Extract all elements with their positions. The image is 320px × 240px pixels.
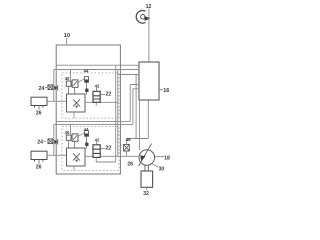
reservoir stem (bottom): [38, 160, 40, 164]
svg-text:22: 22: [106, 91, 112, 97]
element square 40 (bottom): [66, 135, 71, 140]
svg-text:46: 46: [126, 137, 132, 142]
leader 24: [45, 86, 48, 88]
valve block arrowhead (top): [75, 106, 78, 109]
control unit box: [139, 62, 159, 100]
pump shaft diagonal: [139, 144, 152, 166]
reservoir legs (bottom): [35, 160, 43, 162]
svg-text:44: 44: [84, 69, 89, 74]
tank stem: [146, 187, 148, 190]
crank icon 12 hub circle: [141, 14, 146, 19]
wire left drop to module 1: [53, 70, 55, 102]
valve block arrowhead (bottom): [75, 160, 78, 163]
enclosure box 10: [56, 45, 120, 174]
crank icon 12 arc: [136, 11, 145, 24]
wire reservoir to valve block (top): [47, 100, 66, 102]
stems 40/38 to valve block (bottom): [69, 140, 75, 148]
diagonal 38 to 44 (bottom): [78, 133, 85, 137]
wire bus line 3: [118, 74, 140, 76]
metering stack rungs (top): [93, 96, 100, 99]
wire valve block to pump suction (bottom): [85, 155, 118, 157]
wire pump suction from V2: [118, 155, 140, 157]
junction block on stem (bottom): [85, 143, 88, 146]
stem 44 down (bottom): [86, 136, 88, 148]
dashed module box (bottom): [62, 127, 119, 171]
svg-text:28: 28: [127, 162, 133, 168]
svg-text:42: 42: [95, 83, 100, 88]
dashed module box (top): [62, 73, 119, 118]
wire between modules B: [56, 89, 139, 125]
wire filter to suction line: [126, 151, 128, 156]
wire bus line 2: [54, 69, 140, 71]
check valve stem (top): [57, 85, 59, 90]
leader 24 (bottom): [43, 140, 46, 142]
junction block on stem (top): [85, 89, 88, 92]
stub to label 16: [159, 89, 163, 91]
valve block (top): [67, 94, 86, 112]
check valve mark (top): [54, 86, 57, 91]
reservoir box 24 (bottom): [31, 151, 47, 159]
filter square 46: [124, 144, 130, 151]
pump outlet wire: [155, 156, 164, 158]
valve block (bottom): [67, 148, 86, 166]
stem 44 down (top): [86, 82, 88, 94]
svg-text:10: 10: [64, 33, 70, 39]
svg-text:40: 40: [65, 130, 70, 135]
wire from icon 12 down to control unit: [148, 8, 150, 62]
check valve stem (bottom): [57, 139, 59, 144]
element 38 inner mark (top): [73, 81, 77, 85]
leader tick under label 10: [66, 38, 68, 44]
reservoir legs (top): [35, 106, 43, 108]
svg-text:16: 16: [163, 88, 169, 94]
stems 40/38 to valve block (top): [69, 86, 75, 94]
wire bus line 4: [135, 75, 137, 139]
tank box: [141, 171, 153, 187]
svg-text:24: 24: [39, 86, 45, 92]
sensor square 34 X (bottom): [48, 139, 53, 144]
leader to label 30: [152, 164, 158, 167]
svg-text:42: 42: [95, 137, 100, 142]
stem 42 to metering stack (bottom): [96, 142, 98, 145]
sensor square 34 (top): [48, 85, 53, 90]
stem below valve block (bottom): [73, 167, 75, 171]
metering stack (bottom): [93, 145, 100, 158]
wire control unit down to pump: [138, 100, 140, 150]
svg-text:26: 26: [36, 111, 42, 117]
stub to label 22 (bottom): [100, 147, 105, 149]
connector 44 body (bottom): [85, 131, 89, 137]
svg-text:40: 40: [65, 76, 70, 81]
sensor square 34 (bottom): [48, 139, 53, 144]
reservoir box 24 (top): [31, 97, 47, 105]
element square 38 (bottom): [72, 134, 78, 141]
valve block arrows (bottom): [73, 153, 80, 160]
stem below valve block (top): [73, 113, 75, 119]
pump arrow triangle: [140, 155, 145, 161]
reservoir stem (top): [38, 106, 40, 110]
stem from bus to 38 (top): [70, 70, 72, 80]
wire control unit down to filter: [127, 100, 149, 144]
stem 42 to metering stack (top): [95, 88, 97, 106]
pump legs to tank: [145, 165, 148, 171]
connector 44 dark half (bottom): [85, 134, 89, 137]
connector 44 dark half (top): [85, 80, 89, 83]
wire between modules A: [56, 85, 139, 122]
crank icon 12 pointer wedge: [144, 16, 150, 21]
wire vertical V2: [117, 70, 119, 157]
metering stack (top): [93, 91, 100, 102]
diagonal 38 to 44 (top): [78, 79, 85, 83]
stem from wire to 38 (bottom): [70, 124, 72, 133]
valve block arrows (top): [73, 99, 80, 106]
check valve mark (bottom): [54, 140, 57, 145]
element square 40 (top): [66, 81, 71, 86]
wire vertical V1: [115, 65, 117, 162]
sensor square 34 X: [48, 85, 53, 90]
wire valve block to V1 (top): [85, 101, 118, 103]
svg-text:30: 30: [159, 167, 165, 173]
svg-text:18: 18: [164, 156, 170, 162]
wire left drop to module 2: [54, 124, 56, 155]
stub to label 22 (top): [100, 93, 105, 95]
element square 38 (top): [72, 80, 78, 87]
svg-text:32: 32: [143, 191, 149, 197]
filter square X marks: [124, 144, 130, 151]
svg-text:22: 22: [106, 145, 112, 151]
wire bus line 1: [56, 64, 139, 66]
svg-text:24: 24: [37, 140, 43, 146]
connector 44 body (top): [85, 77, 89, 83]
metering stack rungs (bottom): [93, 149, 100, 153]
wire reservoir to valve block (bottom): [47, 154, 66, 156]
svg-text:26: 26: [36, 165, 42, 171]
element 38 inner mark (bottom): [73, 135, 77, 139]
metering stack drain (bottom): [96, 157, 116, 162]
pump circle: [139, 150, 155, 166]
